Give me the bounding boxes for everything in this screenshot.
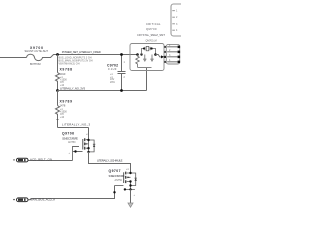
svg-text:QM700_M: QM700_M (146, 39, 157, 42)
svg-text:X9789: X9789 (60, 99, 73, 103)
svg-text:ANT50: ANT50 (115, 179, 123, 182)
svg-text:ANT50: ANT50 (68, 141, 76, 144)
connector pin P9702 (13, 198, 28, 202)
pin tick X9789 (57, 119, 59, 121)
resistor X9789 (56, 91, 60, 128)
svg-text:QM700: QM700 (146, 27, 157, 31)
wire module output (156, 55, 162, 57)
svg-text:0.1UF: 0.1UF (108, 67, 117, 71)
svg-text:SOMEOCTUPDATE: SOMEOCTUPDATE (62, 136, 78, 140)
node module output (154, 53, 157, 56)
wire power net to crystal module (58, 54, 138, 56)
wire gate Q9706 (73, 147, 83, 161)
svg-text:X9788: X9788 (60, 68, 73, 72)
resistor X9788 (56, 55, 60, 91)
connector pin row 1 (167, 44, 180, 48)
svg-text:CRYSTAL_9MHZ_SMT: CRYSTAL_9MHZ_SMT (137, 33, 165, 37)
connector pin row 4 (167, 59, 180, 63)
transistor Q9706 (83, 128, 96, 154)
wire cap branch 2 (151, 55, 153, 59)
wire Q9707 source to ground (130, 189, 132, 203)
wire crystal branch (142, 49, 156, 55)
pin square connector left row1 (164, 46, 166, 48)
svg-text:POWER_NET_LITERALLY_FIXED: POWER_NET_LITERALLY_FIXED (62, 50, 101, 54)
svg-text:LITERALLY_SCHWULE: LITERALLY_SCHWULE (97, 159, 123, 163)
ground internal 2 (151, 59, 154, 62)
svg-text:C9702: C9702 (107, 63, 118, 67)
connector pin row 2 (167, 49, 180, 53)
connector J9700 (166, 44, 179, 64)
node gate Q9706 (74, 150, 76, 152)
svg-text:SOMEOCTUPDATE: SOMEOCTUPDATE (109, 174, 125, 178)
pin square connector left row2 (164, 51, 166, 53)
node gate Q9707 (113, 191, 115, 193)
pin square connector left row3 (164, 56, 166, 58)
wire module bottom bus (138, 67, 152, 69)
ground internal 1 (143, 59, 146, 62)
wire rail riser to module (146, 68, 148, 91)
svg-text:SHUNT-CUTE-SHT: SHUNT-CUTE-SHT (25, 49, 49, 53)
svg-text:LITERALLY_NO_3: LITERALLY_NO_3 (62, 123, 90, 127)
node power junction A (56, 53, 59, 56)
node rail junction (56, 89, 59, 92)
shunt X9700 (27, 54, 58, 60)
pin square connector left row4 (164, 61, 166, 63)
node crystal left pin (143, 48, 145, 50)
arrow module output to connector (161, 55, 164, 58)
svg-text:+10: +10 (60, 116, 65, 119)
svg-text:MAIN_BUS_ACD_A: MAIN_BUS_ACD_A (30, 197, 55, 201)
svg-text:VBATMAIN(3) OH: VBATMAIN(3) OH (59, 63, 80, 66)
svg-text:LITERALLY_NO_3V3: LITERALLY_NO_3V3 (60, 86, 85, 90)
capacitor C9702 (118, 53, 126, 92)
wire Q9706 source to Q9707 drain (89, 152, 131, 173)
crystal Y1 (145, 46, 150, 50)
wire to Q9706 drain (58, 127, 89, 129)
svg-text:Q9707: Q9707 (109, 169, 121, 173)
svg-text:ACD_BELT_ON: ACD_BELT_ON (30, 157, 52, 161)
wire MAIN_BUS pill to gate Q9707 (28, 186, 115, 200)
ground main (128, 203, 133, 207)
resistor internal module (136, 55, 140, 68)
svg-text:BOTTOM: BOTTOM (30, 62, 41, 66)
node crystal left (140, 53, 142, 55)
connector pin P9701 (13, 158, 28, 162)
transistor Q9707 (124, 168, 137, 191)
wire power net left segment (0, 57, 27, 59)
connector pin row 3 (167, 54, 180, 58)
connector J9701 top right (171, 4, 185, 36)
node crystal right (151, 47, 153, 49)
wire ground rail (58, 90, 147, 92)
wire cap branch 1 (144, 55, 146, 59)
wire ACD_BELT_ON pill to gate (28, 160, 73, 162)
svg-text:CRITICAL: CRITICAL (146, 22, 161, 26)
node module input (136, 53, 139, 56)
wire gate lead Q9707 (115, 185, 124, 187)
crystal module box Y9700 (130, 44, 164, 71)
svg-text:Q9706: Q9706 (62, 131, 74, 135)
